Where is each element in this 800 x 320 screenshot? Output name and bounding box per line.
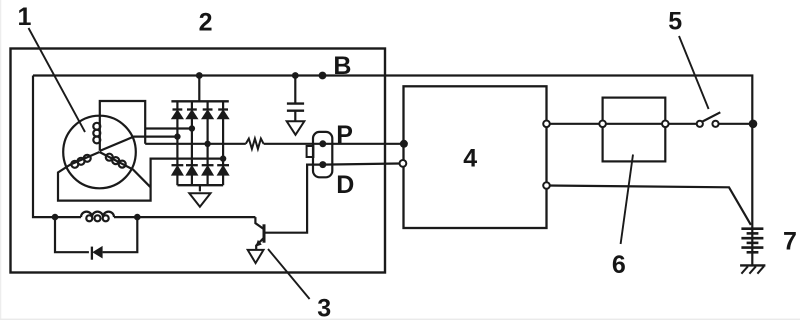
svg-text:7: 7 (783, 227, 797, 255)
svg-text:3: 3 (317, 294, 331, 320)
svg-text:B: B (333, 52, 351, 80)
svg-text:4: 4 (463, 144, 477, 172)
svg-text:5: 5 (668, 8, 682, 36)
svg-text:6: 6 (612, 251, 626, 279)
svg-text:2: 2 (199, 9, 213, 37)
svg-text:D: D (336, 171, 354, 199)
svg-text:P: P (336, 121, 353, 149)
svg-text:1: 1 (18, 3, 32, 31)
